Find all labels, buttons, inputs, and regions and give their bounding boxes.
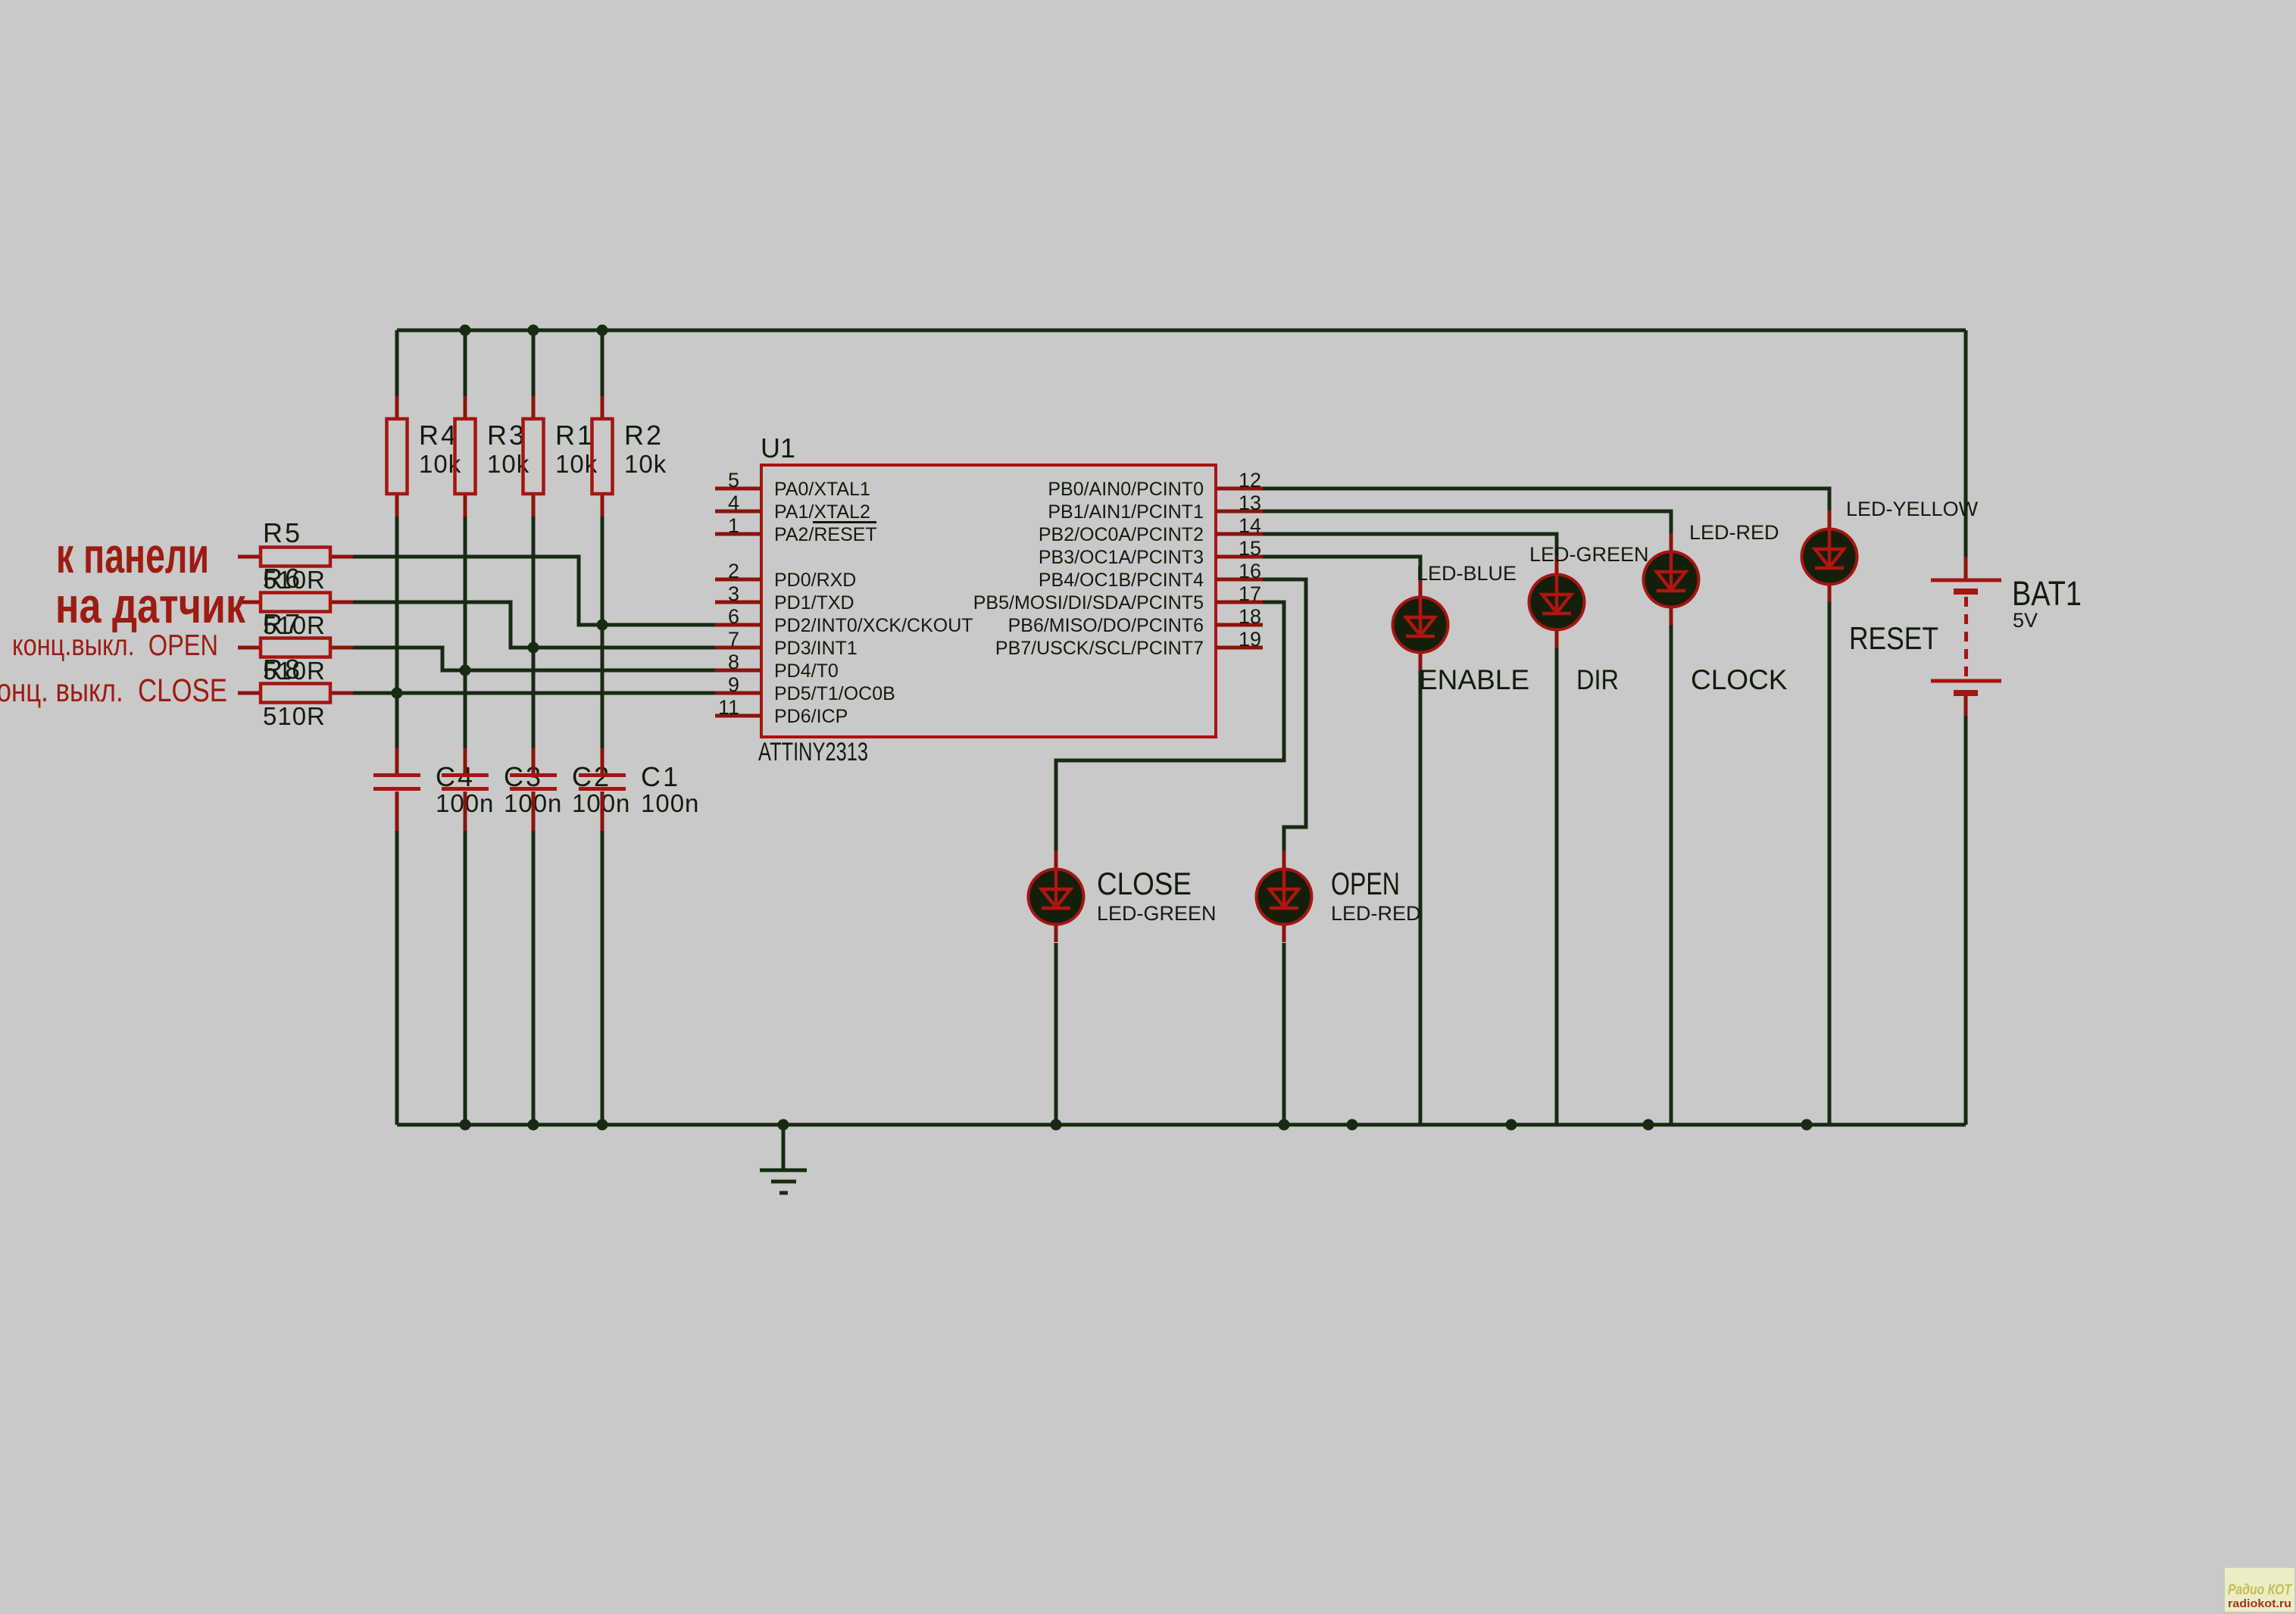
wire column x=614 capacitor to GND rail — [464, 831, 467, 1125]
svg-text:PA0/XTAL1: PA0/XTAL1 — [774, 479, 870, 500]
wire net CLOSE LED to GND rail — [1054, 943, 1058, 1125]
svg-text:PD5/T1/OC0B: PD5/T1/OC0B — [774, 683, 895, 704]
resistor R8 510R series — [238, 654, 353, 730]
svg-text:Радио КОТ: Радио КОТ — [2228, 1582, 2292, 1598]
pin 15 PB3/OC1A/PCINT3 — [1039, 537, 1263, 568]
pin 13 PB1/AIN1/PCINT1 — [1048, 492, 1263, 523]
svg-text:18: 18 — [1239, 605, 1261, 628]
node GND rail junction at OPEN LED — [1279, 1119, 1290, 1131]
svg-text:17: 17 — [1239, 582, 1261, 605]
wire R1 top drop — [532, 330, 536, 396]
node GND rail junction at C2 — [528, 1119, 539, 1131]
net label K PANELI (to panel) — [56, 527, 209, 583]
LED CLOCK (LED-RED) — [1644, 521, 1788, 695]
svg-text:PB3/OC1A/PCINT3: PB3/OC1A/PCINT3 — [1039, 547, 1204, 568]
wire R3 top drop — [464, 330, 467, 396]
svg-text:7: 7 — [728, 628, 739, 651]
svg-text:DIR: DIR — [1576, 664, 1619, 695]
pin 14 PB2/OC0A/PCINT2 — [1039, 514, 1263, 545]
svg-text:PB4/OC1B/PCINT4: PB4/OC1B/PCINT4 — [1039, 570, 1204, 591]
LED RESET (LED-YELLOW) — [1802, 498, 1979, 656]
svg-text:конц.выкл. OPEN: конц.выкл. OPEN — [12, 629, 218, 662]
svg-text:R1: R1 — [555, 420, 595, 451]
svg-text:5: 5 — [728, 469, 739, 492]
svg-text:PD1/TXD: PD1/TXD — [774, 592, 854, 613]
pin 1 PA2/RESET — [715, 514, 877, 545]
pin 18 PB6/MISO/DO/PCINT6 — [1008, 605, 1263, 636]
svg-text:4: 4 — [728, 492, 739, 514]
svg-text:RESET: RESET — [1849, 620, 1938, 656]
wire net ENABLE pin15 to LED-BLUE — [1263, 557, 1420, 580]
resistor R3 10k pull-up — [455, 396, 530, 517]
svg-text:5V: 5V — [2013, 609, 2038, 632]
net label KONC. VYKL. CLOSE (limit switch close) — [0, 673, 227, 709]
wire BAT1 minus to GND rail — [1964, 716, 1968, 1125]
wire R2 top drop — [601, 330, 604, 396]
wire net RESET LED-YELLOW to GND rail — [1828, 601, 1832, 1125]
svg-text:R4: R4 — [419, 420, 458, 451]
pin 5 PA0/XTAL1 — [715, 469, 870, 500]
svg-text:6: 6 — [728, 605, 739, 628]
LED OPEN (LED-RED) — [1257, 851, 1421, 942]
wire net CLOCK pin13 to LED-RED — [1263, 511, 1671, 535]
wire net R6 to pin7 (PD3) — [353, 602, 715, 648]
pin 2 PD0/RXD — [715, 560, 856, 591]
svg-text:13: 13 — [1239, 492, 1261, 514]
svg-text:R7: R7 — [263, 608, 302, 639]
pin 8 PD4/T0 — [715, 651, 839, 682]
node GND rail junction at segment joint a — [1347, 1119, 1358, 1131]
svg-text:8: 8 — [728, 651, 739, 673]
svg-text:на датчик: на датчик — [55, 577, 246, 633]
svg-text:10k: 10k — [624, 450, 667, 478]
node GND rail junction at segment joint b — [1506, 1119, 1517, 1131]
node VCC-R2 junction — [597, 325, 608, 336]
pin 11 PD6/ICP — [715, 696, 848, 727]
svg-text:конц. выкл. CLOSE: конц. выкл. CLOSE — [0, 673, 227, 709]
svg-text:9: 9 — [728, 673, 739, 696]
svg-text:3: 3 — [728, 582, 739, 605]
svg-text:LED-GREEN: LED-GREEN — [1529, 543, 1649, 566]
net label NA DATCHIK (to sensor) — [55, 577, 246, 633]
resistor R6 510R series — [238, 563, 353, 639]
svg-text:U1: U1 — [761, 432, 795, 464]
LED DIR (LED-GREEN) — [1529, 543, 1649, 695]
wire net CLOCK LED-RED to GND rail — [1670, 624, 1673, 1125]
wire net R7 to pin8 (PD4) — [353, 648, 715, 670]
ground — [760, 1125, 807, 1195]
capacitor C1 100n — [579, 748, 699, 831]
svg-text:LED-BLUE: LED-BLUE — [1417, 562, 1517, 585]
svg-text:PB1/AIN1/PCINT1: PB1/AIN1/PCINT1 — [1048, 501, 1204, 523]
wire VCC rail to BAT1 plus — [1964, 330, 1968, 557]
wire column x=524 resistor to capacitor — [395, 517, 399, 748]
node R3-column / pin8 net junction — [460, 665, 471, 676]
svg-text:14: 14 — [1239, 514, 1261, 537]
svg-text:19: 19 — [1239, 628, 1261, 651]
svg-text:LED-YELLOW: LED-YELLOW — [1846, 498, 1979, 520]
battery BAT1 5V — [1931, 557, 2082, 716]
wire column x=704 capacitor to GND rail — [532, 831, 536, 1125]
wire column x=795 resistor to capacitor — [601, 517, 604, 748]
node GND rail junction at segment joint c — [1643, 1119, 1654, 1131]
node R1-column / pin7 net junction — [528, 642, 539, 654]
svg-text:PD3/INT1: PD3/INT1 — [774, 638, 857, 659]
wire VCC top rail — [397, 329, 1966, 332]
resistor R5 510R series — [238, 517, 353, 594]
wire column x=795 capacitor to GND rail — [601, 831, 604, 1125]
svg-text:PD4/T0: PD4/T0 — [774, 660, 839, 682]
svg-text:11: 11 — [718, 696, 739, 719]
svg-text:ENABLE: ENABLE — [1419, 664, 1529, 695]
svg-text:100n: 100n — [641, 789, 699, 817]
node VCC-R3 junction — [460, 325, 471, 336]
wire net R8 to pin9 (PD5) — [353, 691, 715, 695]
svg-text:R6: R6 — [263, 563, 302, 594]
LED CLOSE (LED-GREEN) — [1029, 851, 1217, 942]
svg-text:OPEN: OPEN — [1331, 866, 1400, 901]
wire net OPEN pin16 to LED — [1263, 579, 1306, 851]
svg-text:R8: R8 — [263, 654, 302, 685]
LED ENABLE (LED-BLUE) — [1393, 562, 1530, 695]
svg-text:15: 15 — [1239, 537, 1261, 560]
wire column x=614 resistor to capacitor — [464, 517, 467, 748]
svg-text:PD2/INT0/XCK/CKOUT: PD2/INT0/XCK/CKOUT — [774, 615, 973, 636]
svg-text:PD0/RXD: PD0/RXD — [774, 570, 856, 591]
pin 3 PD1/TXD — [715, 582, 854, 613]
svg-text:R2: R2 — [624, 420, 664, 451]
svg-text:PA1/XTAL2: PA1/XTAL2 — [774, 501, 870, 523]
svg-text:2: 2 — [728, 560, 739, 582]
capacitor C3 100n — [442, 748, 562, 831]
node GND rail junction at segment joint d — [1801, 1119, 1813, 1131]
resistor R4 10k pull-up — [387, 396, 462, 517]
svg-text:BAT1: BAT1 — [2012, 574, 2082, 613]
net label KONC.VYKL. OPEN (limit switch open) — [12, 629, 218, 662]
wire GND bottom rail — [397, 1123, 1966, 1127]
svg-text:C1: C1 — [641, 761, 680, 792]
svg-text:R3: R3 — [487, 420, 526, 451]
svg-text:12: 12 — [1239, 469, 1261, 492]
wire VCC left drop to R4 — [395, 330, 399, 396]
pin 17 PB5/MOSI/DI/SDA/PCINT5 — [973, 582, 1263, 613]
node VCC-R1 junction — [528, 325, 539, 336]
svg-text:PB2/OC0A/PCINT2: PB2/OC0A/PCINT2 — [1039, 524, 1204, 545]
node R2-column / pin6 net junction — [597, 620, 608, 631]
wire net OPEN LED to GND rail — [1282, 943, 1286, 1125]
svg-text:16: 16 — [1239, 560, 1261, 582]
svg-text:PB7/USCK/SCL/PCINT7: PB7/USCK/SCL/PCINT7 — [995, 638, 1204, 659]
wire column x=704 resistor to capacitor — [532, 517, 536, 748]
node GND rail junction at C3 — [460, 1119, 471, 1131]
wire net DIR LED-GREEN to GND rail — [1555, 647, 1559, 1125]
op-amp U1 ATTINY2313 box — [758, 432, 1216, 766]
capacitor C2 100n — [510, 748, 630, 831]
pin 12 PB0/AIN0/PCINT0 — [1048, 469, 1263, 500]
wire net CLOSE pin17 to LED — [1056, 602, 1284, 851]
capacitor C4 100n — [373, 748, 494, 831]
svg-text:510R: 510R — [263, 702, 326, 730]
svg-text:R5: R5 — [263, 517, 302, 548]
svg-text:LED-RED: LED-RED — [1689, 521, 1779, 544]
node GND rail junction at CLOSE LED — [1051, 1119, 1062, 1131]
wire net RESET pin12 to LED-YELLOW — [1263, 489, 1829, 512]
watermark radiokot.ru logo — [2225, 1568, 2294, 1612]
svg-text:LED-GREEN: LED-GREEN — [1097, 902, 1217, 925]
pin 7 PD3/INT1 — [715, 628, 857, 659]
svg-text:LED-RED: LED-RED — [1331, 902, 1421, 925]
svg-text:radiokot.ru: radiokot.ru — [2228, 1597, 2291, 1610]
pin 16 PB4/OC1B/PCINT4 — [1039, 560, 1263, 591]
svg-text:PD6/ICP: PD6/ICP — [774, 706, 848, 727]
wire net R5 to pin6 (PD2) — [353, 557, 715, 625]
svg-text:PB5/MOSI/DI/SDA/PCINT5: PB5/MOSI/DI/SDA/PCINT5 — [973, 592, 1204, 613]
svg-text:CLOSE: CLOSE — [1097, 866, 1192, 901]
svg-text:1: 1 — [728, 514, 739, 537]
resistor R2 10k pull-up — [592, 396, 667, 517]
svg-text:PB6/MISO/DO/PCINT6: PB6/MISO/DO/PCINT6 — [1008, 615, 1204, 636]
svg-text:к панели: к панели — [56, 527, 209, 583]
node GND rail junction at ground stem — [778, 1119, 789, 1131]
wire net ENABLE LED-BLUE to GND rail — [1419, 670, 1423, 1125]
svg-text:PA2/RESET: PA2/RESET — [774, 524, 877, 545]
wire column x=524 capacitor to GND rail — [395, 831, 399, 1125]
svg-text:PB0/AIN0/PCINT0: PB0/AIN0/PCINT0 — [1048, 479, 1204, 500]
pin 9 PD5/T1/OC0B — [715, 673, 895, 704]
wire net DIR pin14 to LED-GREEN — [1263, 534, 1557, 557]
node GND rail junction at C1 — [597, 1119, 608, 1131]
resistor R7 510R series — [238, 608, 353, 685]
pin 6 PD2/INT0/XCK/CKOUT — [715, 605, 973, 636]
pin 19 PB7/USCK/SCL/PCINT7 — [995, 628, 1263, 659]
pin 4 PA1/XTAL2 — [715, 492, 870, 523]
node R4-column / pin9 net junction — [392, 688, 403, 699]
resistor R1 10k pull-up — [523, 396, 598, 517]
svg-text:CLOCK: CLOCK — [1691, 664, 1788, 695]
svg-text:ATTINY2313: ATTINY2313 — [758, 738, 868, 766]
